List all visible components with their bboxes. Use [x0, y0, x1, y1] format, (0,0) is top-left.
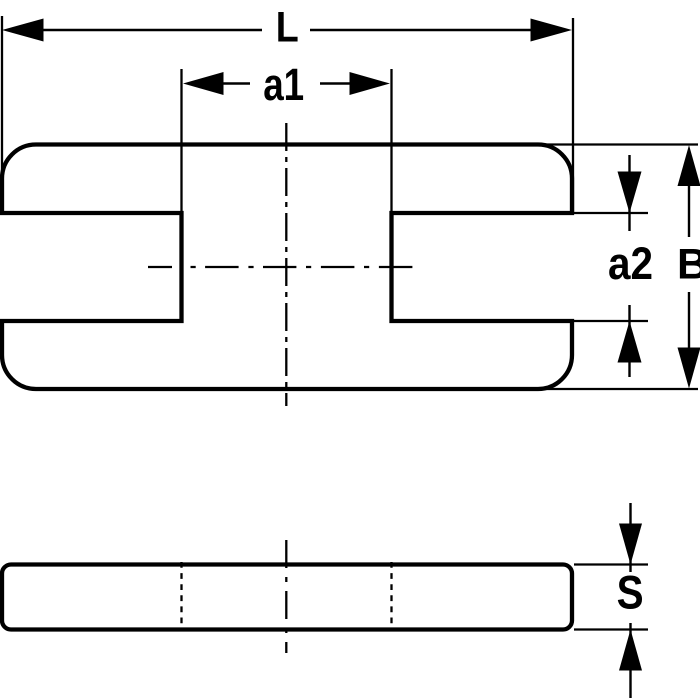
svg-text:a1: a1: [263, 59, 304, 110]
svg-text:a2: a2: [608, 238, 653, 289]
svg-text:L: L: [276, 4, 299, 52]
svg-text:S: S: [617, 566, 644, 619]
svg-text:B: B: [677, 241, 700, 289]
